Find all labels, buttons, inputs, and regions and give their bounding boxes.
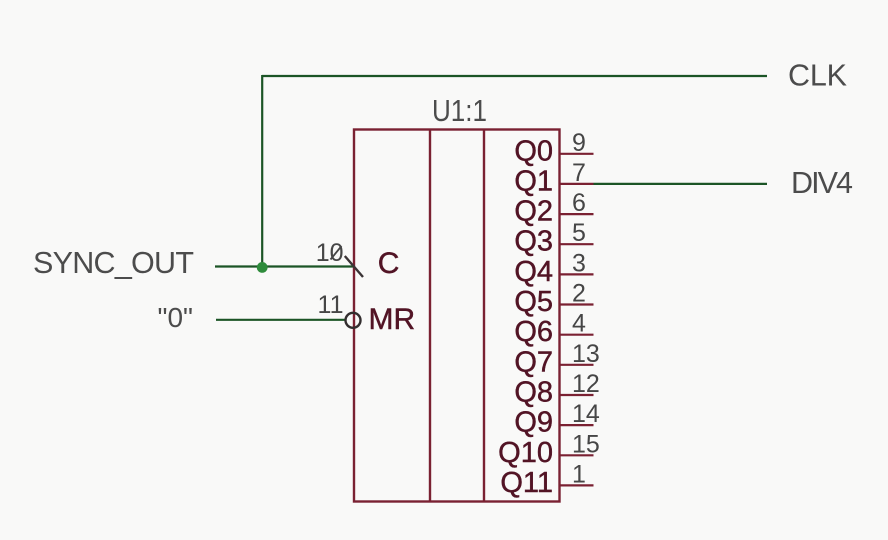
pin Q8 (12) <box>514 370 600 409</box>
wire CLK horizontal <box>262 75 767 77</box>
svg-text:15: 15 <box>572 430 600 458</box>
svg-text:Q7: Q7 <box>514 346 553 378</box>
pin Q3 (5) <box>514 219 593 258</box>
pin Q10 (15) <box>498 430 600 469</box>
svg-text:5: 5 <box>572 219 586 247</box>
pin C (10) clock slash <box>345 256 363 277</box>
svg-text:SYNC_OUT: SYNC_OUT <box>33 246 194 280</box>
slashed zero of pin number 10 <box>331 246 342 260</box>
svg-text:9: 9 <box>572 129 586 157</box>
svg-text:Q6: Q6 <box>514 316 553 348</box>
svg-text:U1:1: U1:1 <box>432 93 487 128</box>
svg-text:11: 11 <box>318 291 344 319</box>
svg-text:DIV4: DIV4 <box>791 166 853 200</box>
svg-text:CLK: CLK <box>788 59 847 93</box>
svg-text:14: 14 <box>572 400 600 428</box>
svg-text:7: 7 <box>572 159 586 187</box>
svg-text:Q10: Q10 <box>498 437 553 469</box>
wire CLK vertical drop <box>261 75 263 267</box>
svg-text:6: 6 <box>572 189 586 217</box>
svg-text:Q8: Q8 <box>514 377 553 409</box>
svg-text:Q1: Q1 <box>514 165 553 197</box>
pin Q11 (1) <box>500 460 593 499</box>
pin Q6 (4) <box>514 310 593 349</box>
pin Q5 (2) <box>514 280 593 319</box>
pin Q4 (3) <box>514 249 593 288</box>
svg-text:13: 13 <box>572 340 600 368</box>
svg-text:"0": "0" <box>158 302 193 333</box>
svg-text:Q3: Q3 <box>514 226 553 258</box>
pin Q2 (6) <box>514 189 593 228</box>
pin Q9 (14) <box>514 400 600 439</box>
wire Q1 to DIV4 <box>594 183 768 185</box>
pin Q0 (9) <box>514 129 593 168</box>
svg-text:Q0: Q0 <box>514 135 553 167</box>
svg-text:12: 12 <box>572 370 600 398</box>
svg-text:3: 3 <box>572 249 586 277</box>
svg-text:Q9: Q9 <box>514 407 553 439</box>
IC U1 body <box>354 130 560 502</box>
pin MR (11) bubble <box>346 313 361 328</box>
svg-text:MR: MR <box>369 303 416 336</box>
svg-text:Q2: Q2 <box>514 196 553 228</box>
wire "0" to pin MR <box>216 319 346 321</box>
svg-text:1: 1 <box>572 460 586 488</box>
junction node <box>257 262 268 273</box>
svg-text:2: 2 <box>572 280 586 308</box>
pin Q1 (7) <box>514 159 593 198</box>
svg-text:Q5: Q5 <box>514 286 553 318</box>
svg-text:Q11: Q11 <box>500 467 553 499</box>
svg-text:C: C <box>378 247 400 280</box>
svg-text:10: 10 <box>316 239 344 267</box>
svg-text:Q4: Q4 <box>514 256 553 288</box>
pin Q7 (13) <box>514 340 600 379</box>
svg-text:4: 4 <box>572 310 586 338</box>
wire SYNC_OUT to pin C <box>215 265 354 267</box>
